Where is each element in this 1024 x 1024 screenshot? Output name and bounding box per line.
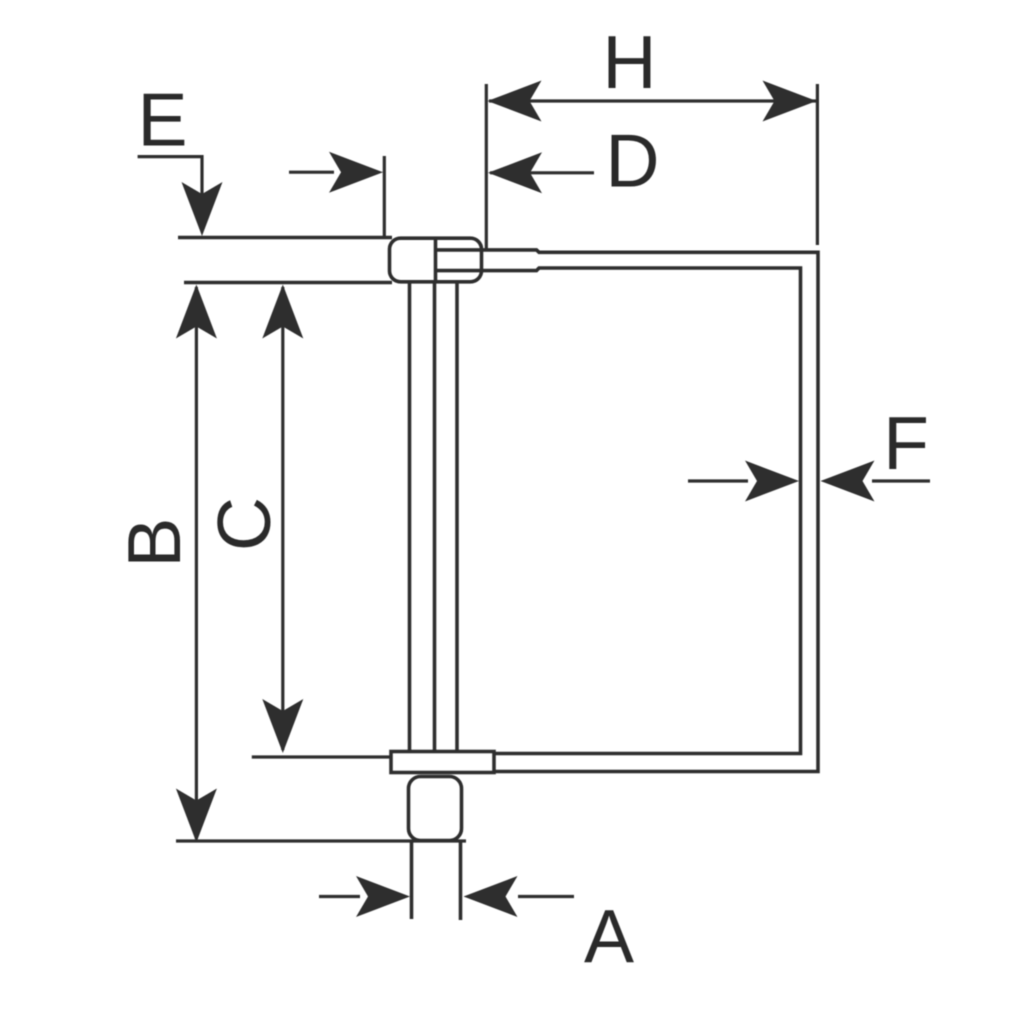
B dimension line	[195, 287, 198, 839]
H dimension line	[489, 99, 816, 102]
lower shaft left edge / A extension	[410, 841, 414, 920]
svg-text:B: B	[112, 518, 196, 568]
pin head divider line	[434, 239, 438, 282]
F right arrow shaft	[872, 479, 930, 482]
tick line at head left	[383, 156, 386, 237]
svg-text:F: F	[883, 401, 929, 485]
svg-text:A: A	[584, 894, 634, 978]
wire end segment bottom edge	[436, 268, 539, 271]
lower shaft right edge / A extension	[459, 841, 463, 921]
A left arrowhead	[356, 876, 410, 917]
C bottom arrowhead	[262, 699, 303, 753]
pin shaft left edge	[408, 283, 412, 752]
small gap arrow shaft	[289, 171, 334, 174]
D arrowhead	[488, 152, 542, 193]
svg-text:D: D	[605, 119, 659, 203]
H left extension line	[485, 84, 488, 249]
knob (ball detent end)	[409, 777, 462, 841]
A left arrow shaft	[319, 895, 360, 898]
bail inner contour	[494, 268, 801, 754]
handle tube top line	[178, 236, 392, 240]
E leader line	[138, 157, 202, 228]
B bottom extension line	[176, 839, 466, 842]
H right extension line	[816, 84, 819, 245]
washer	[391, 752, 494, 773]
B top arrowhead	[176, 285, 217, 339]
pin head	[390, 238, 482, 282]
handle tube bottom line / B-C extension line	[184, 281, 392, 285]
wire end segment top edge	[436, 250, 539, 252]
bail outer contour (top wire, right side, bottom wire)	[494, 252, 818, 771]
pin shaft right edge	[455, 283, 459, 752]
D dimension line	[490, 171, 594, 174]
H left arrowhead	[488, 81, 542, 122]
small gap arrowhead	[329, 152, 383, 193]
E arrowhead	[182, 182, 223, 236]
C bottom extension line	[252, 755, 391, 758]
B bottom arrowhead	[176, 789, 217, 843]
svg-text:C: C	[202, 497, 286, 551]
pin shaft middle line (wire leg)	[433, 283, 437, 752]
A right arrow shaft	[518, 895, 574, 898]
C top arrowhead	[262, 285, 303, 339]
svg-text:H: H	[602, 20, 656, 104]
F left arrowhead	[745, 461, 799, 502]
C dimension line	[281, 287, 284, 750]
F left arrow shaft	[688, 479, 748, 482]
A right arrowhead	[464, 876, 518, 917]
svg-text:E: E	[137, 78, 187, 162]
H right arrowhead	[763, 81, 817, 122]
F right arrowhead	[821, 461, 875, 502]
